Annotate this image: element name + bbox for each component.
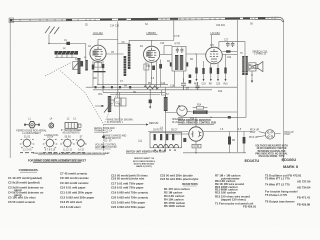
capacitor C21 tone bbox=[181, 78, 186, 90]
capacitor bar row under V1 bbox=[94, 71, 106, 72]
resistor R9 leg bbox=[229, 132, 231, 153]
wafer caption specks row2 bbox=[20, 151, 85, 154]
coil oscillator comb left of V1 bbox=[78, 58, 81, 74]
wire staircase to IFT2 bbox=[152, 39, 174, 41]
speaker cone bbox=[256, 64, 258, 68]
wire gang dashed diagonal to switch shaft bbox=[60, 71, 104, 125]
wire vertical mid bbox=[165, 87, 167, 152]
wire V1 anode to IFT1 bbox=[106, 53, 124, 55]
condensers column 2 bbox=[60, 172, 95, 210]
resistor blob under V2 bbox=[152, 66, 155, 71]
switch wafer S7 bbox=[76, 138, 85, 147]
pilot lamp bbox=[177, 106, 187, 116]
service sheet centre note bbox=[133, 157, 156, 168]
wave switch contacts unit box bbox=[148, 127, 188, 150]
valve V1 electrodes bbox=[93, 47, 103, 60]
IF can symbol bbox=[65, 123, 81, 129]
wires below IFT2 bbox=[174, 71, 176, 87]
frame right border bbox=[283, 21, 285, 162]
switch wafer S1-S2 bbox=[22, 138, 32, 148]
switch wafer contact specks bbox=[20, 139, 87, 148]
resistor R5 zigzag on bus bbox=[144, 86, 158, 89]
bus line 5 bbox=[110, 94, 160, 96]
wire with capacitor C14 bbox=[149, 90, 151, 107]
wires heater chain bbox=[187, 111, 193, 114]
bus line 4 bbox=[103, 91, 166, 93]
speaker transformer box bbox=[249, 63, 256, 71]
wire gang dashed link bbox=[45, 63, 71, 77]
valve V4 rectifier envelope bbox=[189, 127, 203, 141]
capacitor C17 bbox=[226, 42, 230, 47]
resistor R13 mains dropper comb bbox=[193, 110, 208, 114]
resistor blob 2 under V2 bbox=[159, 64, 162, 69]
dial scale lower line bbox=[10, 19, 283, 22]
node aerial junction bbox=[48, 43, 49, 44]
valve V2 electrodes bbox=[146, 48, 156, 61]
capacitor C18 bbox=[231, 42, 235, 47]
parts list header note dark bbox=[33, 159, 81, 163]
resistors under V3 with arrows bbox=[194, 54, 228, 86]
wire V1 top cap bbox=[98, 40, 118, 46]
switch shaft dashed bbox=[103, 125, 105, 152]
oscillator coil symbol bbox=[49, 122, 54, 128]
capacitor trimmer beside bbox=[81, 61, 84, 67]
wires V2 pins down bbox=[146, 60, 161, 90]
wire long vertical right bbox=[236, 20, 238, 152]
wire dial pointer vertical bbox=[117, 22, 119, 86]
transformer IFT2 box bbox=[170, 46, 188, 71]
label box U404 bbox=[192, 144, 201, 148]
valve V1 envelope bbox=[90, 45, 106, 61]
bus line 2 bbox=[86, 86, 238, 88]
resistor leg 2 bbox=[243, 132, 245, 153]
capacitor box under V2 bbox=[144, 64, 149, 70]
capacitor near V3 screen bbox=[196, 82, 200, 90]
condensers column 1 bbox=[8, 176, 44, 204]
valve base leads bbox=[259, 132, 266, 134]
frame left border bbox=[9, 19, 11, 159]
capacitor small box near V1 bbox=[94, 62, 102, 67]
wires speaker links bbox=[249, 65, 256, 66]
resistors column 2 bbox=[215, 174, 257, 209]
wire aerial down-lead bbox=[49, 34, 86, 43]
switch wafer S5-S6 bbox=[62, 138, 72, 148]
capacitor C1 bbox=[66, 42, 70, 45]
ferrite rod aerial L1 bbox=[55, 51, 79, 58]
coil smoothing choke comb bbox=[164, 97, 168, 111]
bus line 3 bbox=[93, 89, 212, 91]
capacitor box C15 bbox=[115, 98, 121, 106]
wire IFT1 top link bbox=[118, 43, 129, 46]
condensers column 4 top bbox=[160, 174, 199, 181]
dial scale small labels under strip bbox=[85, 24, 254, 28]
switch wafer S3-S4 bbox=[45, 138, 55, 148]
coil comb 2 bbox=[85, 60, 88, 71]
valve base bottom view bbox=[265, 130, 274, 139]
hexnut ferrite rod end symbol bbox=[24, 122, 40, 128]
bus line 1 bbox=[97, 84, 168, 86]
resistor blob 2 under V1 bbox=[102, 64, 105, 68]
frame aerial hatch bbox=[45, 26, 59, 34]
wire IFT1 to V2 top bbox=[129, 40, 152, 46]
misc small labels bbox=[63, 36, 243, 120]
wire V3 anode top bbox=[219, 42, 245, 56]
junction blobs on bus bbox=[95, 86, 97, 88]
resistors column 1 bbox=[164, 187, 190, 208]
dial scale tick marks bbox=[30, 17, 272, 21]
capacitor C2 tuning (box with arrow) bbox=[73, 62, 84, 70]
frame corner box top-left bbox=[9, 18, 14, 23]
valve V3 envelope bbox=[206, 47, 223, 64]
transformer output T6 combs bbox=[242, 56, 248, 75]
resistor blob under V1 bbox=[92, 65, 95, 70]
wire V2 anode to IFT2 bbox=[160, 54, 172, 56]
wire bus bend to choke bbox=[161, 90, 165, 97]
dial scale upper line bbox=[10, 17, 284, 22]
wire vertical from output transformer down bbox=[245, 75, 247, 118]
wires around volume control bbox=[111, 99, 114, 101]
dial scale dark text band 1 bbox=[66, 17, 266, 20]
valve V3 electrodes bbox=[210, 49, 218, 62]
valve V4 electrodes bbox=[191, 131, 201, 137]
wire from dial strip down bbox=[173, 21, 175, 41]
transformer IFT1 bbox=[124, 44, 131, 76]
potentiometer volume control comb bbox=[95, 96, 112, 113]
wire from aerial line down to coil bbox=[85, 44, 87, 61]
ground arrow below speaker bbox=[251, 71, 253, 81]
wire V3 grid left bbox=[195, 53, 197, 55]
resistor R14 above bbox=[193, 104, 208, 109]
valve V2 envelope bbox=[144, 46, 160, 62]
wire gang dashed right arm bbox=[105, 87, 121, 124]
wire V3 anode right bbox=[222, 51, 237, 53]
transformers column bbox=[265, 174, 311, 207]
wires V1 pins down bbox=[93, 61, 103, 93]
wires rectifier bbox=[195, 117, 197, 127]
capacitor resistor pair right of IFT2 bbox=[189, 75, 192, 78]
wire IFT2 to V3 grid bbox=[186, 53, 206, 55]
condensers column 3 bbox=[111, 174, 149, 210]
